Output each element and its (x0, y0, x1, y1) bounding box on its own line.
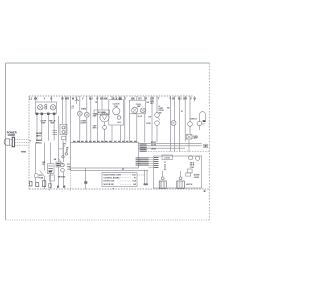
power cord plug (4, 139, 9, 145)
pin label (134, 141, 136, 142)
schematic dashed border top (29, 95, 193, 97)
motor label box (94, 110, 110, 114)
svg-text:OR-W: OR-W (151, 149, 156, 151)
oven lamp 1 (62, 126, 65, 129)
svg-text:UNIT: UNIT (36, 136, 41, 138)
pin label (97, 141, 100, 142)
legend drop blob (144, 183, 148, 185)
legend drop 1 (144, 170, 146, 185)
center contacts (45, 104, 47, 106)
svg-text:DOOR LOCK: DOOR LOCK (104, 181, 116, 183)
element lead wire (53, 114, 55, 141)
svg-text:GY: GY (138, 97, 142, 100)
oven lamp box X (186, 135, 192, 140)
svg-text:B: B (204, 189, 206, 193)
svg-text:OVEN LT: OVEN LT (190, 119, 198, 121)
svg-text:GY-W: GY-W (151, 145, 156, 147)
board lower right pin (139, 163, 142, 165)
wire (50, 143, 52, 164)
wire (169, 96, 171, 152)
relay box (47, 164, 54, 174)
wire (86, 117, 88, 142)
wire (76, 96, 78, 104)
pin label (105, 141, 108, 142)
wire (35, 178, 37, 186)
svg-text:P3: P3 (64, 144, 66, 146)
svg-text:C3: C3 (164, 167, 166, 169)
svg-text:TERM: TERM (21, 152, 27, 154)
lock board pin (148, 167, 153, 169)
probe drop (174, 126, 176, 152)
fan motor 1 (132, 107, 138, 113)
wire (85, 168, 87, 189)
svg-text:C1: C1 (164, 162, 166, 164)
page frame top border (6, 62, 210, 64)
switch diagonal (59, 159, 64, 166)
wire (79, 96, 81, 111)
board right pin label (140, 151, 147, 152)
lock motor 1 (189, 156, 193, 160)
svg-text:BK: BK (104, 97, 108, 100)
fan motor 2 (140, 108, 145, 113)
aux cluster box (56, 162, 61, 167)
oven light 2 (84, 112, 89, 117)
wire (44, 176, 46, 189)
svg-text:OVEN: OVEN (81, 109, 87, 111)
power cord wire L1 (15, 139, 30, 141)
clock drop wires (111, 125, 113, 143)
clock feed wires (111, 96, 113, 100)
board left contact 1 (65, 153, 67, 155)
power cord wire N (15, 141, 30, 143)
lead label (47, 113, 50, 115)
schematic dashed border left (28, 96, 30, 189)
hi-limit switch (155, 113, 160, 118)
page frame right border (dotted) (208, 63, 210, 220)
svg-text:LT: LT (72, 108, 74, 110)
power cord plug link (10, 139, 13, 141)
element lead wire (36, 114, 38, 141)
legend box (102, 173, 137, 187)
pin label (126, 141, 128, 142)
lock relay (187, 169, 192, 173)
board right pin label (140, 143, 147, 144)
svg-text:LIGHT: LIGHT (80, 122, 87, 124)
separator dashed line (140, 151, 209, 153)
wire (50, 96, 52, 102)
dlb wire (151, 96, 153, 143)
board left wire (62, 140, 64, 156)
wire (63, 172, 65, 185)
power cord terminal block (12, 137, 14, 147)
board lower right pin (139, 161, 142, 163)
board lower right pin (139, 159, 142, 161)
pin label (77, 141, 80, 142)
svg-text:BROIL: BROIL (36, 143, 43, 145)
lower contact (155, 121, 160, 126)
solenoid 2 (177, 181, 185, 188)
bus wire 2 (139, 145, 202, 147)
wire blob (84, 181, 87, 184)
switch arm (158, 117, 160, 120)
convection motor M1 (100, 113, 109, 122)
motor lead (104, 122, 106, 126)
svg-text:BK: BK (131, 97, 135, 100)
wire (101, 96, 103, 110)
solenoid stem 2 (180, 171, 182, 177)
wire (58, 167, 60, 185)
clock contact (117, 116, 120, 119)
svg-text:W: W (95, 102, 97, 104)
lamp housing loop (200, 112, 206, 122)
aux circle 2 (61, 168, 65, 172)
wire (70, 96, 72, 143)
solenoid stem 1 (162, 171, 164, 177)
svg-text:EL: EL (43, 164, 45, 166)
board right pin label (140, 147, 147, 148)
lock aux box (186, 173, 191, 176)
board left connector (62, 136, 66, 139)
pin label (101, 141, 104, 142)
fan drop wires (128, 114, 130, 143)
element lead wire (47, 114, 49, 141)
board right pin label (140, 145, 147, 146)
motor feed (104, 113, 106, 115)
wire (188, 139, 190, 152)
pin label (93, 141, 96, 142)
wire (58, 143, 60, 162)
svg-text:R: R (145, 97, 147, 100)
lead label (36, 113, 39, 115)
wire (189, 126, 191, 134)
thermal switch (34, 174, 38, 178)
surface unit box (35, 102, 56, 114)
wire (189, 96, 191, 122)
element lead wire (41, 114, 43, 141)
svg-text:R: R (67, 97, 69, 100)
bus wire 1 (139, 143, 202, 145)
heating zigzag (75, 99, 79, 101)
svg-text:C2: C2 (164, 164, 166, 166)
oven lamp 2 (62, 131, 65, 134)
clock box (109, 100, 124, 125)
svg-text:ELECTRONIC OVEN: ELECTRONIC OVEN (104, 174, 122, 176)
lead label (41, 113, 44, 115)
oven lamp box (60, 124, 67, 134)
wire (65, 96, 67, 143)
wire (156, 125, 158, 142)
wire (104, 129, 106, 142)
bottom connector 3 (43, 181, 46, 187)
pin label (85, 141, 88, 142)
pin label (130, 141, 132, 142)
surface element left (38, 105, 43, 110)
left bus wire (57, 116, 59, 143)
wire (35, 96, 37, 102)
border component (204, 144, 208, 147)
pin label (122, 141, 124, 142)
pin label (81, 141, 84, 142)
svg-text:N.O.: N.O. (118, 122, 122, 124)
lock board pin (148, 161, 153, 163)
bottom stub 1 (49, 189, 51, 191)
meat probe jack (171, 121, 176, 126)
probe feed (174, 96, 176, 121)
lock board pin (148, 159, 153, 161)
svg-text:CONTROL BOARD: CONTROL BOARD (104, 177, 121, 180)
wire (90, 96, 92, 143)
svg-text:COM: COM (190, 167, 195, 169)
fan box (129, 100, 145, 114)
aux circle 1 (61, 163, 65, 167)
fan feed wires (136, 96, 138, 100)
clock motor (113, 108, 120, 115)
wire (198, 126, 200, 130)
bottom connector 4 (49, 183, 52, 187)
switch arm 2 (40, 171, 45, 177)
svg-text:SW: SW (133, 184, 136, 186)
page frame left border (5, 63, 7, 220)
wire (184, 96, 186, 142)
door lock board (154, 156, 202, 188)
warmer element (53, 131, 58, 135)
lock motor 2 (196, 156, 200, 160)
wire (50, 173, 52, 189)
lamp box feed wire (61, 96, 63, 124)
switch bulb (197, 121, 202, 126)
hi-limit wire (156, 96, 158, 113)
board right pin label (140, 149, 147, 150)
lamp terminal (203, 120, 206, 122)
svg-text:-1: -1 (64, 146, 66, 148)
motor cap (103, 126, 107, 130)
pin label (114, 141, 116, 142)
svg-text:P1: P1 (134, 178, 136, 180)
wire (79, 116, 81, 143)
electronic oven control board (71, 143, 139, 169)
legend top line (71, 169, 149, 171)
svg-text:SW: SW (159, 112, 162, 114)
surface element right (50, 105, 55, 110)
legend drop 2 (146, 170, 148, 185)
lock board pin (148, 165, 153, 167)
board lower right pin (139, 164, 142, 166)
svg-text:LOCK: LOCK (194, 177, 200, 179)
wire (63, 143, 65, 163)
svg-text:GROUND: GROUND (58, 177, 66, 179)
pin label (118, 141, 120, 142)
solenoid 1 (159, 181, 166, 188)
svg-text:CCW: CCW (146, 123, 151, 125)
bottom connector 1 (30, 181, 32, 186)
lock board pin (148, 163, 153, 165)
lead label (53, 113, 56, 115)
board left stub line (59, 148, 64, 150)
svg-text:CORD: CORD (8, 134, 16, 137)
svg-text:HI LO: HI LO (138, 116, 143, 118)
board left contact 2 (62, 156, 64, 158)
wire (96, 96, 98, 143)
bottom cluster (50, 175, 55, 181)
wire (44, 143, 46, 171)
wire (35, 143, 37, 174)
schematic dashed border bottom (29, 188, 209, 190)
lock board pin (148, 157, 153, 159)
pin label (89, 141, 92, 142)
oven light 1 (77, 111, 82, 116)
legend leader (137, 174, 145, 176)
page frame bottom border (dotted) (6, 219, 210, 221)
bottom marks (57, 185, 59, 187)
svg-text:LATCH: LATCH (186, 183, 193, 186)
wire (194, 96, 196, 102)
bus wire 3 (139, 147, 186, 149)
svg-text:P1: P1 (122, 169, 124, 171)
oven cavity lamp (188, 122, 193, 127)
lock label box (162, 155, 173, 159)
bottom stub 2 (70, 170, 72, 190)
bottom connector 2 (36, 183, 39, 187)
svg-text:LOCK: LOCK (165, 157, 171, 159)
power cord wire L2 (15, 144, 30, 146)
wire (86, 96, 88, 112)
svg-text:MOTOR SW: MOTOR SW (104, 184, 114, 186)
wire (179, 96, 181, 152)
pin label (109, 141, 112, 142)
board lower right pin (139, 157, 142, 159)
pin label (73, 141, 76, 142)
